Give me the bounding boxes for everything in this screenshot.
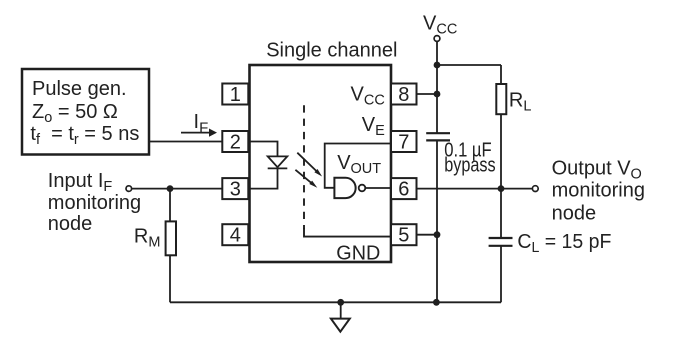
svg-text:Single channel: Single channel (266, 40, 397, 62)
svg-text:GND: GND (336, 242, 380, 264)
svg-text:tf = tr = 5 ns: tf = tr = 5 ns (30, 123, 139, 148)
svg-text:bypass: bypass (444, 154, 496, 176)
svg-text:6: 6 (398, 179, 409, 201)
svg-text:4: 4 (230, 225, 241, 247)
svg-text:RM: RM (134, 226, 161, 251)
svg-text:RL: RL (509, 90, 532, 115)
svg-text:5: 5 (398, 225, 409, 247)
svg-text:2: 2 (230, 132, 241, 154)
svg-text:3: 3 (230, 179, 241, 201)
svg-text:monitoring: monitoring (48, 192, 141, 214)
svg-text:node: node (552, 203, 597, 225)
svg-text:node: node (48, 213, 93, 235)
svg-text:monitoring: monitoring (552, 180, 645, 202)
svg-text:CL = 15 pF: CL = 15 pF (517, 231, 611, 256)
svg-text:1: 1 (230, 84, 241, 106)
svg-text:7: 7 (398, 132, 409, 154)
svg-text:IF: IF (194, 111, 209, 137)
svg-text:8: 8 (398, 84, 409, 106)
svg-text:Pulse gen.: Pulse gen. (32, 78, 127, 100)
svg-text:VCC: VCC (423, 13, 457, 38)
